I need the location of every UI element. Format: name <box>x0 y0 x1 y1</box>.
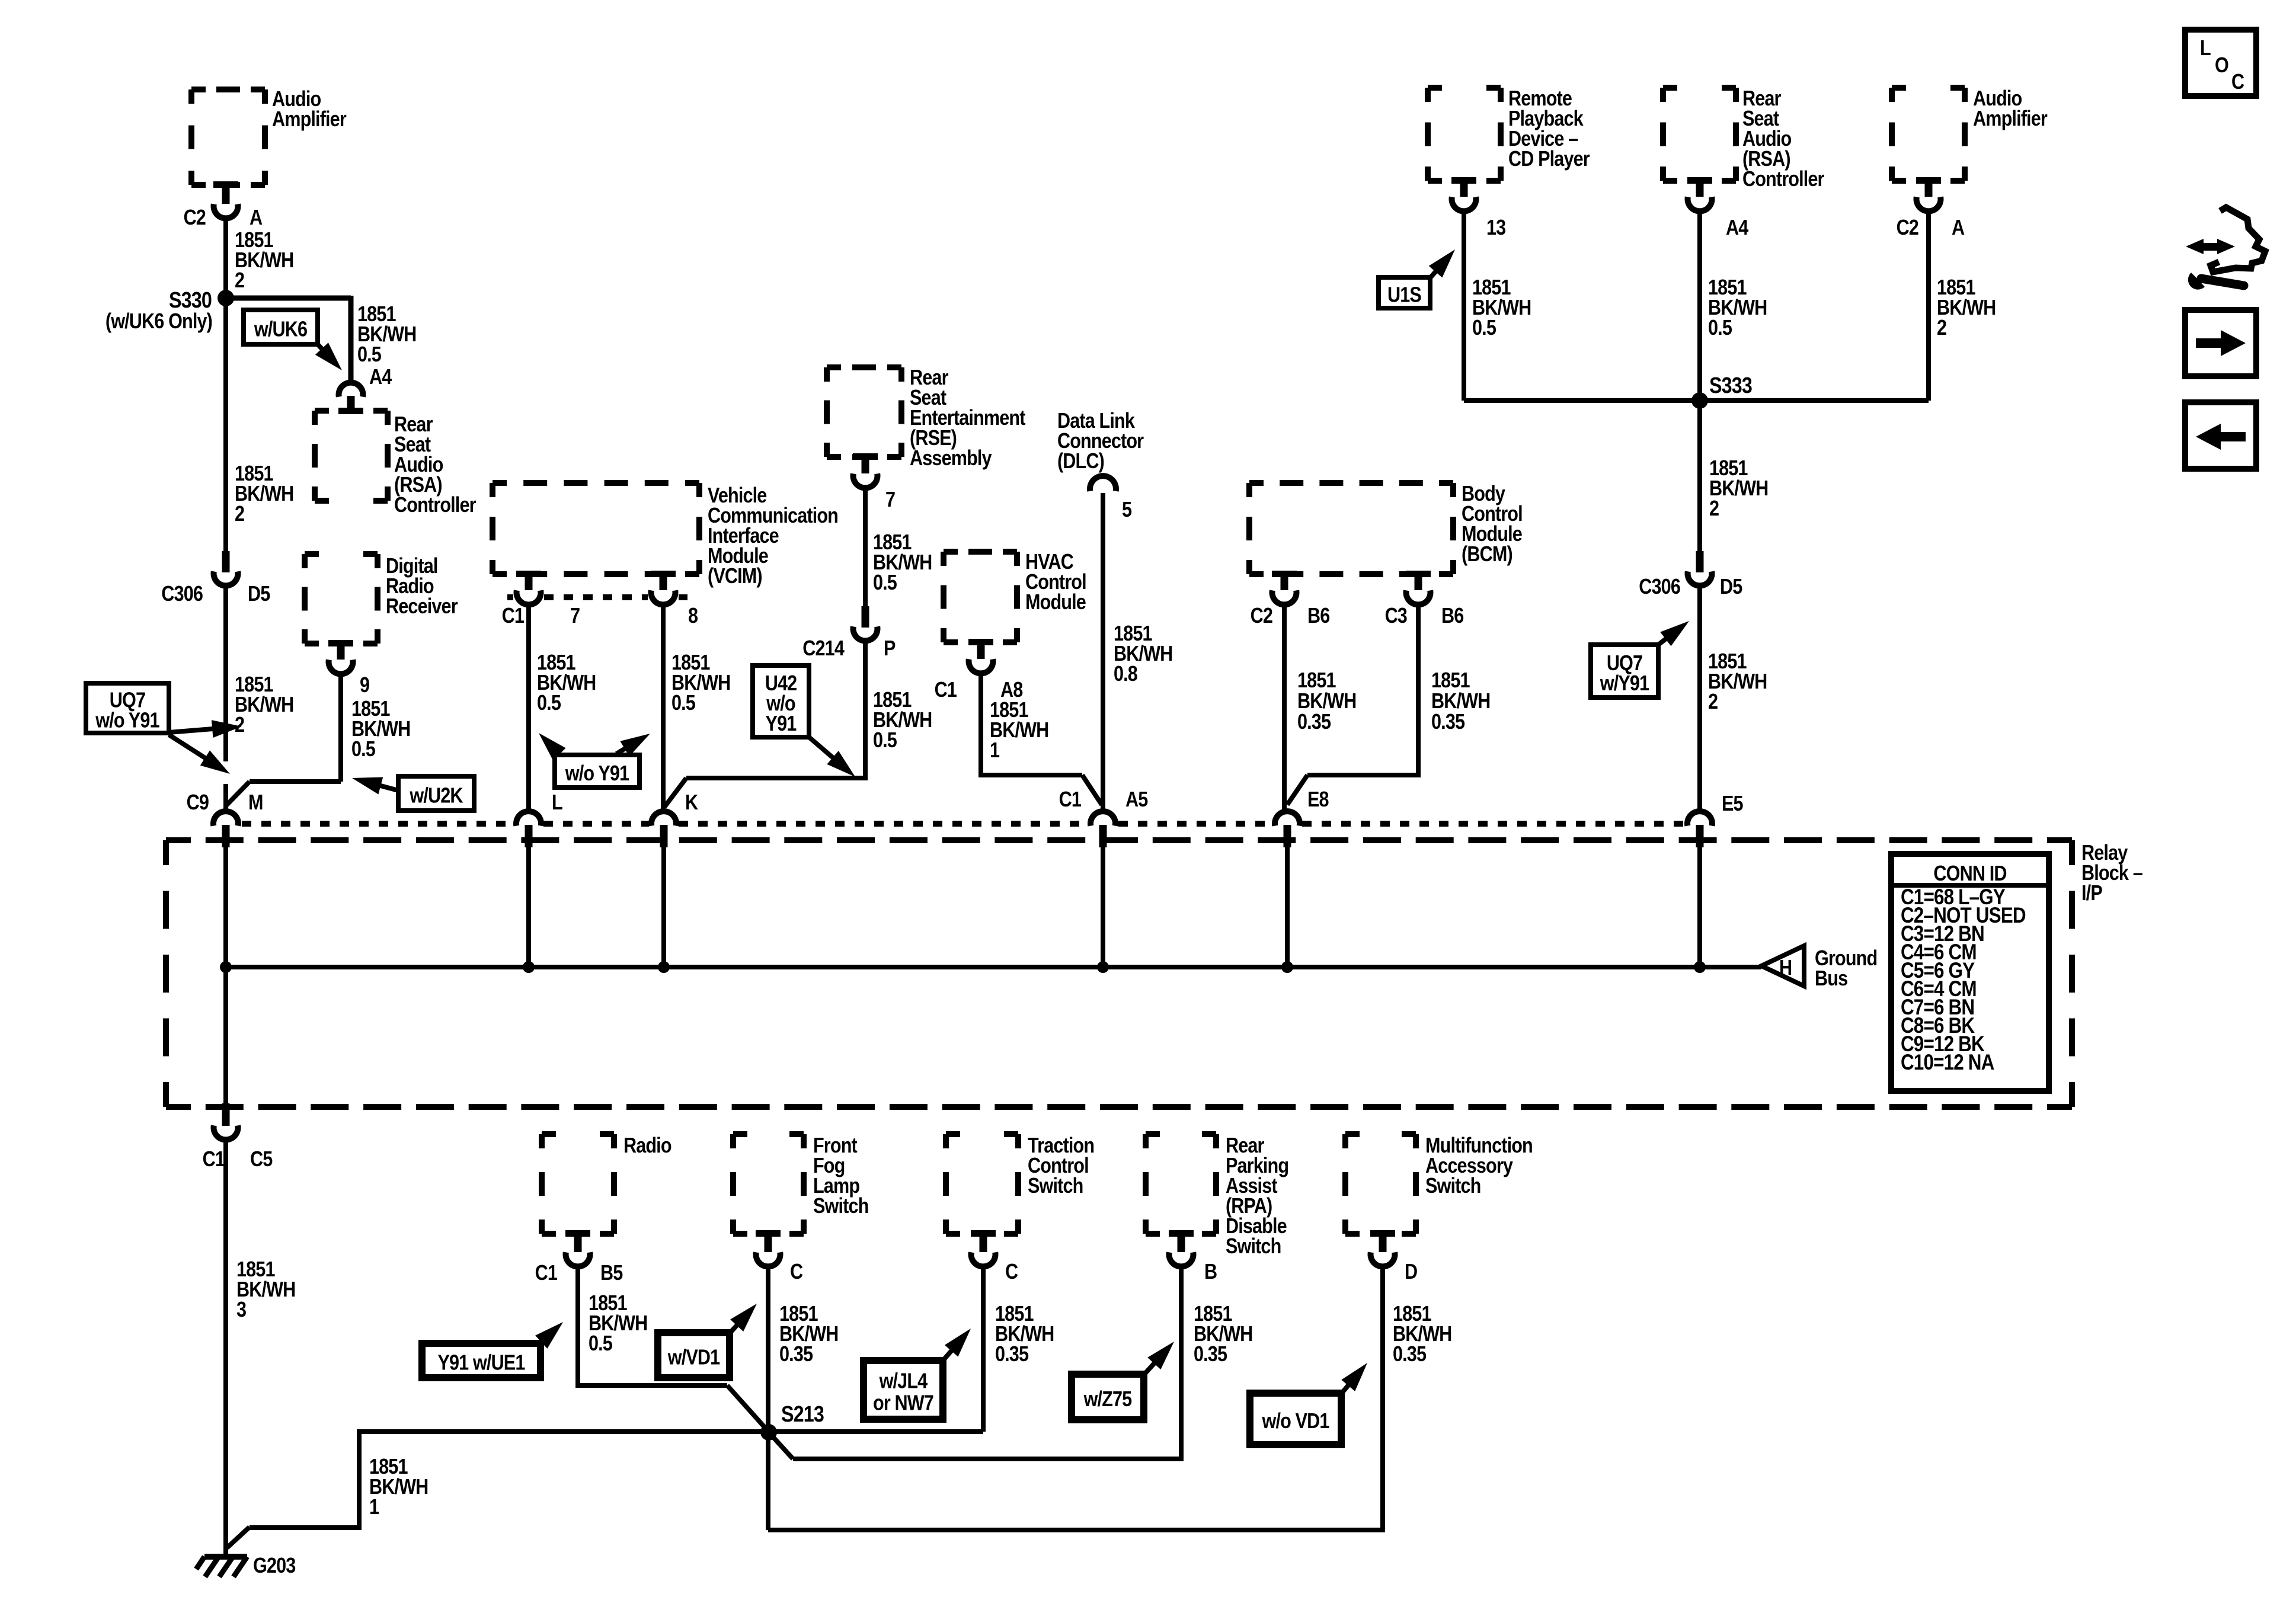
pin label C5 <box>250 1148 273 1172</box>
arrow UQ7 w/Y91 to wire <box>1658 621 1689 646</box>
svg-text:A4: A4 <box>1726 216 1749 240</box>
svg-text:Amplifier: Amplifier <box>272 108 347 132</box>
wire: S330 branch to A4 <box>226 296 351 382</box>
wire label 1851 BK/WH 0.5 (RSA top) <box>1708 276 1767 340</box>
CONN ID header rule <box>1891 883 2049 888</box>
arrow w/JL4 to traction wire <box>943 1329 971 1361</box>
wire: E5 to bus <box>1697 846 1702 967</box>
svg-text:D: D <box>1405 1260 1417 1284</box>
go-left legend box <box>2185 402 2256 469</box>
svg-text:w/Y91: w/Y91 <box>1600 672 1649 696</box>
svg-text:C214: C214 <box>802 637 845 661</box>
connector C2 pin A (left audio amp) <box>213 181 238 218</box>
svg-text:w/o Y91: w/o Y91 <box>95 709 159 732</box>
svg-text:0.5: 0.5 <box>873 729 897 753</box>
pin label E8 <box>1307 788 1329 812</box>
arrow U1S to wire <box>1429 249 1455 278</box>
svg-text:Y91: Y91 <box>766 712 797 736</box>
wire: C1-C5 down to G203 <box>223 1141 228 1555</box>
svg-text:I/P: I/P <box>2081 882 2102 905</box>
arrow w/o VD1 to multifunction wire <box>1341 1363 1367 1394</box>
option label box Y91 w/UE1 <box>422 1343 541 1378</box>
svg-text:or NW7: or NW7 <box>873 1391 933 1415</box>
wire label 1851 BK/WH 0.5 (radio) <box>589 1292 647 1356</box>
wire label 1851 BK/WH 0.8 (DLC) <box>1114 622 1172 686</box>
svg-text:Controller: Controller <box>394 494 476 517</box>
connector L (relay block) <box>516 811 541 847</box>
svg-text:Module: Module <box>1025 591 1086 614</box>
component box: Radio <box>542 1134 614 1234</box>
pin label B6 left <box>1307 604 1330 628</box>
svg-text:0.5: 0.5 <box>1708 316 1732 340</box>
pin label 8 (VCIM) <box>688 604 698 628</box>
wire: right amp down to S333 level <box>1926 213 1931 401</box>
svg-text:0.35: 0.35 <box>779 1343 813 1366</box>
pin label C (traction) <box>1005 1260 1018 1284</box>
option label box w/Z75 <box>1072 1374 1144 1420</box>
svg-text:A: A <box>250 206 263 230</box>
pin label C1 (radio) <box>535 1262 558 1285</box>
junction dot L-bus <box>523 961 535 973</box>
pin label C3 (BCM) <box>1385 604 1408 628</box>
svg-text:Switch: Switch <box>1028 1174 1083 1198</box>
connector DLC pin 5 <box>1090 476 1116 491</box>
pin label 7 (VCIM) <box>570 604 580 628</box>
wire: ground branch to S213 <box>227 1432 765 1548</box>
option label box w/o VD1 <box>1250 1393 1341 1445</box>
svg-text:0.35: 0.35 <box>1431 710 1464 734</box>
go-left arrow <box>2196 424 2246 450</box>
label S330 <box>169 288 212 313</box>
pin label A4 (left RSA) <box>369 366 392 389</box>
arrow w/VD1 to fog wire <box>730 1304 757 1333</box>
pin label C2 (right) <box>1897 216 1919 240</box>
inline connector C306 pin D5 (left) <box>214 551 238 585</box>
svg-text:0.35: 0.35 <box>995 1343 1028 1366</box>
wire: RSA A4 down to S333 <box>1697 213 1702 401</box>
wire: VCIM 7 to L <box>526 607 531 810</box>
label C306 (right) <box>1639 575 1680 599</box>
svg-text:Switch: Switch <box>1226 1235 1281 1259</box>
svg-text:C: C <box>790 1260 803 1284</box>
label: VCIM <box>708 484 838 588</box>
wire: amp C2-A down to S330 <box>223 220 228 298</box>
component box: Rear Seat Audio (RSA) Controller (top) <box>1663 88 1736 181</box>
pin label C1 (A5) <box>1059 788 1082 812</box>
label: Remote Playback Device - CD Player <box>1508 87 1590 171</box>
connector RSA pin A4 (top) <box>1687 177 1712 211</box>
option label box w/VD1 <box>658 1333 730 1378</box>
component box: Vehicle Communication Interface Module (VCIM) <box>493 483 699 574</box>
pin label D (multifunction) <box>1405 1260 1417 1284</box>
arrow w/U2K to wire <box>352 777 398 795</box>
LOC legend box <box>2185 30 2256 96</box>
connector A5 (relay block) <box>1091 811 1115 847</box>
svg-text:2: 2 <box>1937 316 1946 340</box>
svg-text:0.8: 0.8 <box>1114 662 1137 686</box>
svg-text:0.5: 0.5 <box>537 692 561 715</box>
svg-text:C5: C5 <box>250 1148 273 1172</box>
svg-text:C: C <box>2231 71 2244 94</box>
svg-text:w/o Y91: w/o Y91 <box>565 762 629 786</box>
arrow Y91 w/UE1 to radio wire <box>535 1322 563 1349</box>
vehicle icon with arrows and wrench <box>2186 207 2265 290</box>
svg-text:H: H <box>1779 956 1792 980</box>
pin label 9 <box>360 674 369 697</box>
label: HVAC Control Module <box>1025 550 1086 614</box>
wire: E8 to bus <box>1285 846 1290 967</box>
svg-text:Bus: Bus <box>1815 967 1848 991</box>
connector C2 pin A (right audio amp) <box>1916 177 1941 211</box>
svg-text:BK/WH: BK/WH <box>1431 690 1490 713</box>
pin label C1 (bottom) <box>203 1148 225 1172</box>
pin label C1 (HVAC) <box>935 678 957 702</box>
label D5 (right) <box>1720 575 1742 599</box>
wire label 1851 BK/WH 2 (top left) <box>235 229 293 293</box>
svg-text:0.5: 0.5 <box>1472 316 1496 340</box>
svg-text:0.5: 0.5 <box>671 692 695 715</box>
arrow from w/UK6 to A4 wire <box>315 343 342 370</box>
label: RSA Controller (top) <box>1742 87 1824 191</box>
connector C9 pin M (relay block) <box>213 811 238 847</box>
svg-text:S333: S333 <box>1709 373 1752 398</box>
label S333 <box>1709 373 1752 398</box>
pin label B6 right <box>1441 604 1464 628</box>
label: Data Link Connector (DLC) <box>1057 409 1144 473</box>
svg-text:Switch: Switch <box>1425 1174 1480 1198</box>
svg-text:C1: C1 <box>935 678 957 702</box>
CONN ID table box <box>1891 854 2049 1091</box>
pin label B (RPA) <box>1204 1260 1217 1284</box>
wire label 1851 BK/WH 0.5 (C214-P) <box>873 689 932 753</box>
wire: M to ground bus <box>223 846 228 967</box>
wire: CD 13 down to S333 level <box>1462 213 1466 401</box>
wire label 1851 BK/WH 2 (below S333) <box>1709 457 1768 521</box>
svg-text:0.35: 0.35 <box>1194 1343 1227 1366</box>
svg-text:A4: A4 <box>369 366 392 389</box>
wire: S333 down to C306 (right) <box>1697 401 1702 552</box>
wire label 1851 BK/WH 0.35 (BCM C3) <box>1431 669 1490 734</box>
pin label C (fog) <box>790 1260 803 1284</box>
label G203 <box>253 1554 296 1578</box>
wire label 1851 BK/WH 2 (E5) <box>1708 650 1767 714</box>
wire: C306 to E5 <box>1697 587 1702 810</box>
junction dot A5-bus <box>1097 961 1109 973</box>
pin label P <box>884 637 896 661</box>
svg-text:7: 7 <box>570 604 580 628</box>
ground G203 symbol <box>196 1557 247 1577</box>
component box: HVAC Control Module <box>944 552 1017 642</box>
component box: Traction Control Switch <box>946 1134 1018 1234</box>
go-right legend box <box>2185 310 2256 376</box>
svg-text:2: 2 <box>235 269 244 293</box>
wire: bus down to C1-C5 <box>223 967 228 1105</box>
label: BCM <box>1462 482 1523 566</box>
wire label 1851 BK/WH 0.5 (digital radio) <box>351 697 410 761</box>
label D5 (left) <box>248 582 270 606</box>
label Relay Block - I/P <box>2081 841 2142 905</box>
connector RPA pin B <box>1169 1230 1194 1266</box>
ground bus line <box>226 965 1761 969</box>
svg-text:0.5: 0.5 <box>351 738 375 761</box>
svg-text:B5: B5 <box>600 1262 623 1285</box>
arrow U42 to wire <box>809 737 855 777</box>
wire: fog C to S213 <box>766 1268 770 1530</box>
svg-text:A5: A5 <box>1125 788 1148 812</box>
inline connector C214 pin P <box>853 606 878 641</box>
junction dot E5-bus <box>1694 961 1706 973</box>
svg-text:CD Player: CD Player <box>1508 148 1590 171</box>
svg-text:B6: B6 <box>1307 604 1330 628</box>
svg-text:E5: E5 <box>1722 792 1743 816</box>
connector CD pin 13 <box>1451 177 1476 211</box>
component box: Audio Amplifier (right) <box>1892 88 1965 181</box>
junction dot E8-bus <box>1281 961 1293 973</box>
svg-text:O: O <box>2215 54 2228 78</box>
connector A4 (left RSA controller) <box>338 383 363 414</box>
svg-text:(BCM): (BCM) <box>1462 543 1512 566</box>
svg-text:C1: C1 <box>535 1262 558 1285</box>
svg-text:Amplifier: Amplifier <box>1973 107 2048 131</box>
svg-text:D5: D5 <box>248 582 270 606</box>
option label box w/o Y91 <box>555 755 639 788</box>
wire label 1851 BK/WH 1 (HVAC) <box>990 699 1048 763</box>
option label box UQ7 w/Y91 <box>1591 645 1658 697</box>
component box: Rear Parking Assist (RPA) Disable Switch <box>1146 1134 1216 1234</box>
ground bus H triangle <box>1761 946 1804 986</box>
svg-text:w/JL4: w/JL4 <box>879 1369 928 1393</box>
splice S213 <box>760 1424 777 1441</box>
option label box U42 w/o Y91 <box>753 665 809 737</box>
svg-text:2: 2 <box>1708 690 1718 714</box>
svg-text:0.35: 0.35 <box>1393 1343 1426 1366</box>
connector BCM C2 pin B6 <box>1272 571 1297 604</box>
label: RSE Assembly <box>910 366 1025 470</box>
svg-text:0.5: 0.5 <box>357 343 381 367</box>
option label box w/U2K <box>398 776 474 811</box>
wire label 1851 BK/WH 0.35 (fog) <box>779 1302 838 1366</box>
option label box UQ7 w/o Y91 <box>86 683 169 733</box>
svg-text:Receiver: Receiver <box>386 595 458 619</box>
label C214 <box>802 637 845 661</box>
connector Traction pin C <box>971 1230 996 1266</box>
wire: VCIM 8 to K <box>661 607 666 810</box>
svg-text:Y91 w/UE1: Y91 w/UE1 <box>437 1351 525 1375</box>
connector Multifunction pin D <box>1370 1230 1395 1266</box>
pin label C9 <box>187 791 209 815</box>
wire label 1851 BK/WH 2 (lower left) <box>235 673 293 737</box>
label H <box>1779 956 1792 980</box>
component box: Body Control Module (BCM) <box>1249 483 1453 574</box>
component box: Remote Playback Device - CD Player <box>1428 88 1501 181</box>
svg-text:Controller: Controller <box>1742 168 1824 191</box>
pin label A (right) <box>1952 216 1965 240</box>
svg-text:7: 7 <box>885 488 895 512</box>
option label box U1S <box>1379 277 1430 308</box>
svg-text:9: 9 <box>360 674 369 697</box>
svg-text:C: C <box>1005 1260 1018 1284</box>
wire: L to bus <box>526 846 531 967</box>
svg-text:Assembly: Assembly <box>910 447 992 470</box>
pin label 7 (RSE) <box>885 488 895 512</box>
svg-text:w/o VD1: w/o VD1 <box>1262 1410 1329 1433</box>
label: Audio Amplifier (right) <box>1973 87 2048 131</box>
pin label C2 (left) <box>184 206 206 230</box>
connector HVAC C1 pin A8 <box>968 639 993 673</box>
svg-text:B: B <box>1204 1260 1217 1284</box>
pin label A4 (top) <box>1726 216 1749 240</box>
wire: S213 to traction riser <box>769 1268 983 1432</box>
arrow UQ7 to wire upper <box>169 720 242 738</box>
wire: S330 down to C306 (left) <box>223 298 228 552</box>
label Ground Bus <box>1815 947 1877 991</box>
svg-text:D5: D5 <box>1720 575 1742 599</box>
svg-text:C2: C2 <box>1251 604 1273 628</box>
svg-text:M: M <box>248 791 263 815</box>
svg-text:C1: C1 <box>1059 788 1082 812</box>
svg-text:(DLC): (DLC) <box>1057 450 1104 473</box>
svg-text:1: 1 <box>369 1496 379 1519</box>
pin label A (left) <box>250 206 263 230</box>
connector VCIM C1 pin 8 <box>651 571 676 604</box>
wire: S213 to multifunction riser <box>768 1268 1383 1530</box>
splice S330 <box>218 290 234 306</box>
wire: DLC to A5 <box>1101 493 1105 810</box>
label: RPA Disable Switch <box>1226 1134 1288 1259</box>
svg-text:Radio: Radio <box>623 1134 671 1158</box>
svg-text:G203: G203 <box>253 1554 296 1578</box>
wire: HVAC A8 to A5 <box>981 676 1102 805</box>
connector BCM C3 pin B6 <box>1406 571 1431 604</box>
wire: S213 to RPA riser <box>769 1268 1181 1459</box>
svg-text:C306: C306 <box>161 582 203 606</box>
svg-text:2: 2 <box>235 713 244 737</box>
wire: radio B5 to S213 <box>578 1268 768 1430</box>
wire label 1851 BK/WH 0.5 (CD) <box>1472 276 1531 340</box>
relay block dashed border <box>166 840 2072 1107</box>
VCIM C1 connector dotted line <box>507 594 687 600</box>
label: Digital Radio Receiver <box>386 555 458 619</box>
connector RSE pin 7 <box>853 453 878 488</box>
label (w/UK6 Only) <box>105 310 212 334</box>
option label box w/JL4 or NW7 <box>864 1361 943 1419</box>
wire: BCM C2-B6 to E8 <box>1282 607 1287 810</box>
pin label C2 (BCM) <box>1251 604 1273 628</box>
wire label 1851 BK/WH 0.5 (VCIM 7) <box>537 651 596 715</box>
pin label 13 <box>1486 216 1506 240</box>
wire label 1851 BK/WH 0.35 (RPA) <box>1194 1302 1252 1366</box>
svg-text:L: L <box>2200 37 2211 60</box>
wire: BCM C3-B6 to E8 <box>1287 607 1418 805</box>
label: Multifunction Accessory Switch <box>1425 1134 1533 1198</box>
svg-text:2: 2 <box>235 502 244 526</box>
svg-text:C1: C1 <box>203 1148 225 1172</box>
connector Fog pin C <box>756 1230 781 1266</box>
svg-text:3: 3 <box>236 1298 246 1322</box>
svg-text:C306: C306 <box>1639 575 1680 599</box>
connector Digital Radio pin 9 <box>328 640 353 674</box>
wire: digital radio 9 to M join <box>226 676 341 806</box>
svg-text:U1S: U1S <box>1387 283 1421 307</box>
label: Front Fog Lamp Switch <box>813 1134 868 1218</box>
pin label C1 (VCIM) <box>502 604 525 628</box>
svg-text:8: 8 <box>688 604 698 628</box>
junction dot K-bus <box>658 961 670 973</box>
pin label M <box>248 791 263 815</box>
arrow w/o Y91 to K wire <box>616 734 650 757</box>
wire label 1851 BK/WH 0.5 (VCIM 8) <box>671 651 730 715</box>
svg-text:C10=12 NA: C10=12 NA <box>1901 1051 1994 1075</box>
svg-text:BK/WH: BK/WH <box>1297 690 1356 713</box>
CONN ID rows <box>1901 885 2026 1075</box>
wire: K to bus <box>661 846 666 967</box>
svg-text:C2: C2 <box>184 206 206 230</box>
connector C1 pin C5 (relay block bottom) <box>214 1103 238 1140</box>
arrow w/Z75 to RPA wire <box>1144 1342 1174 1375</box>
svg-text:13: 13 <box>1486 216 1506 240</box>
wire label 1851 BK/WH 3 <box>236 1258 295 1322</box>
connector Radio C1 pin B5 <box>565 1230 590 1266</box>
svg-text:L: L <box>552 791 562 815</box>
wire label 1851 BK/WH 0.35 (BCM C2) <box>1297 669 1356 734</box>
wire label 1851 BK/WH 0.35 (multifunction) <box>1393 1302 1451 1366</box>
component box: Digital Radio Receiver <box>305 554 378 644</box>
svg-text:P: P <box>884 637 896 661</box>
label: Radio <box>623 1134 671 1158</box>
wire label 1851 BK/WH 2 (right amp) <box>1937 276 1996 340</box>
svg-text:1851: 1851 <box>1297 669 1336 693</box>
pin label 5 (DLC) <box>1122 498 1131 522</box>
svg-text:2: 2 <box>1709 497 1719 521</box>
svg-text:S213: S213 <box>781 1402 824 1427</box>
LOC letters <box>2200 37 2244 94</box>
pin label E5 <box>1722 792 1743 816</box>
svg-text:1851: 1851 <box>1431 669 1470 693</box>
component box: Front Fog Lamp Switch <box>733 1134 804 1234</box>
wire: gap segment above M <box>223 784 228 810</box>
component box: Rear Seat Audio (RSA) Controller (left) <box>315 411 388 501</box>
label S213 <box>781 1402 824 1427</box>
inline connector C306 pin D5 (right) <box>1688 551 1712 585</box>
svg-text:w/VD1: w/VD1 <box>667 1346 720 1369</box>
CONN ID header <box>1933 862 2006 886</box>
svg-text:w/Z75: w/Z75 <box>1083 1388 1132 1411</box>
svg-text:1: 1 <box>990 739 999 763</box>
svg-text:Switch: Switch <box>813 1195 868 1218</box>
component box: Multifunction Accessory Switch <box>1345 1134 1416 1234</box>
svg-text:w/U2K: w/U2K <box>409 784 463 808</box>
wire label 1851 BK/WH 0.5 (A4 branch) <box>357 303 416 367</box>
component box: Rear Seat Entertainment (RSE) Assembly <box>827 367 901 457</box>
connector row dotted line (relay block) <box>242 821 1685 827</box>
svg-text:B6: B6 <box>1441 604 1464 628</box>
pin label L <box>552 791 562 815</box>
wire: C214 P to K <box>664 643 865 807</box>
svg-text:0.35: 0.35 <box>1297 710 1331 734</box>
svg-text:E8: E8 <box>1307 788 1329 812</box>
svg-text:C2: C2 <box>1897 216 1919 240</box>
label: Audio Amplifier (left) <box>272 88 347 132</box>
pin label A5 <box>1125 788 1148 812</box>
wire label 1851 BK/WH 0.35 (traction) <box>995 1302 1054 1366</box>
go-right arrow <box>2196 330 2246 356</box>
svg-text:w/UK6: w/UK6 <box>254 318 307 341</box>
svg-text:5: 5 <box>1122 498 1131 522</box>
label: Rear Seat Audio (RSA) Controller (left) <box>394 413 476 517</box>
splice S333 <box>1691 392 1708 409</box>
wire: A5 to bus <box>1101 846 1105 967</box>
svg-text:C3: C3 <box>1385 604 1408 628</box>
